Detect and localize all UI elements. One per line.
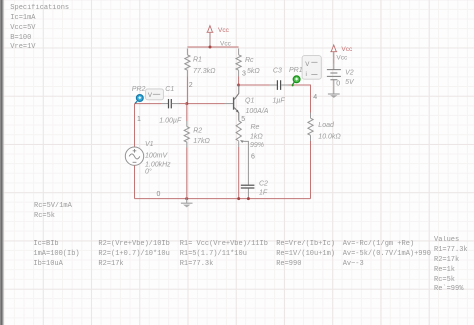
Vcc symbol 2 stem [333, 52, 335, 64]
svg-text:V2: V2 [345, 69, 354, 76]
ground symbol V2 [328, 93, 340, 95]
wire Rc top lead [238, 49, 240, 55]
potentiometer Re [236, 121, 241, 141]
wire R2 bottom to rail [186, 142, 188, 148]
wiper lead to C2 [243, 141, 248, 184]
svg-text:R2: R2 [193, 128, 202, 135]
svg-text:5V: 5V [345, 79, 355, 86]
source V1 circle [125, 147, 143, 165]
capacitor C1 left lead [161, 103, 168, 105]
svg-text:4: 4 [313, 94, 317, 101]
resistor Load [308, 118, 313, 135]
svg-text:17kΩ: 17kΩ [193, 138, 210, 145]
capacitor C2 bottom plate [241, 187, 255, 189]
resistor R1 [185, 55, 190, 70]
source V1 minus [133, 161, 137, 163]
capacitor C3 plates [277, 80, 280, 90]
svg-text:100mV: 100mV [145, 152, 169, 159]
wire V1 bottom to rail [134, 166, 136, 199]
svg-text:Load: Load [318, 122, 335, 129]
wire Vcc symbol stem [209, 33, 211, 47]
junction collector node [237, 84, 240, 87]
transistor Q1 collector lead [234, 85, 239, 99]
specifications text block [10, 4, 69, 53]
probe PR1 pointer tail [292, 82, 294, 85]
probe PR2 dot [136, 95, 143, 102]
formula column Re [276, 240, 335, 269]
wire Re bottom to rail [238, 141, 240, 147]
probe PR2 glyph [138, 96, 141, 99]
svg-text:1F: 1F [259, 190, 268, 197]
capacitor C2 top plate [241, 184, 255, 186]
source V1 sine [129, 154, 140, 159]
junction base node [185, 102, 188, 105]
svg-text:100A/A: 100A/A [246, 108, 269, 115]
transistor Q1 bar [233, 97, 235, 109]
svg-text:Re: Re [251, 124, 260, 131]
svg-text:5kΩ: 5kΩ [247, 68, 260, 75]
svg-text:0: 0 [157, 191, 161, 198]
svg-text:1: 1 [137, 116, 141, 123]
svg-text:5: 5 [241, 116, 245, 123]
wire base from junction to Q1 [187, 103, 225, 105]
junction at Vcc stem [209, 46, 212, 49]
battery V2 top lead [333, 64, 335, 70]
capacitor C1 right lead [172, 103, 179, 105]
svg-text:Vcc: Vcc [218, 27, 230, 34]
probe PR1 callout box [302, 56, 321, 80]
capacitor C3 left lead [270, 84, 277, 86]
svg-text:C1: C1 [165, 86, 174, 93]
svg-text:Q1: Q1 [245, 98, 254, 105]
potentiometer Re wiper arrow [240, 140, 244, 143]
probe PR2 callout box [146, 89, 164, 100]
svg-text:99%: 99% [250, 142, 264, 149]
svg-text:Vcc: Vcc [336, 54, 348, 61]
svg-text:0: 0 [336, 80, 340, 87]
transistor Q1 emitter arrowhead [236, 110, 239, 113]
formula column R1 [180, 240, 268, 269]
probe PR2 pointer tail [135, 101, 137, 103]
wire Load bottom to rail [310, 135, 312, 141]
capacitor C3 right lead [281, 84, 288, 86]
svg-text:0°: 0° [145, 167, 152, 175]
svg-text:6: 6 [251, 154, 255, 161]
svg-text:C2: C2 [259, 180, 268, 187]
formula column Ic [33, 240, 79, 269]
values list [434, 236, 468, 295]
wire R1 bottom to base junction [186, 70, 188, 76]
battery V2 bottom lead [333, 80, 335, 94]
resistor R2 [184, 127, 189, 142]
source V1 plus [133, 149, 137, 153]
wire C1 to base junction [179, 103, 187, 105]
wire top rail Vcc [187, 46, 238, 48]
probe PR1 glyph [295, 77, 298, 80]
junction emitter rail [237, 197, 240, 200]
svg-text:77.3kΩ: 77.3kΩ [193, 68, 216, 75]
svg-text:1kΩ: 1kΩ [250, 134, 263, 141]
svg-text:1.00kHz: 1.00kHz [145, 161, 171, 168]
svg-text:1µF: 1µF [273, 98, 286, 105]
transistor Q1 emitter lead [234, 108, 239, 121]
svg-text:i: i [306, 71, 307, 78]
ground symbol main [186, 199, 188, 203]
probe PR1 dot [293, 76, 300, 83]
svg-text:2: 2 [189, 82, 193, 89]
junction C2 rail [247, 197, 250, 200]
left toolbar edge [0, 0, 5, 325]
svg-text:PR2: PR2 [132, 86, 146, 93]
wire Rc bottom lead [238, 70, 240, 76]
svg-text:1.00µF: 1.00µF [159, 117, 182, 124]
svg-text:PR1: PR1 [289, 67, 303, 74]
Vcc symbol 2 arrow [330, 45, 337, 52]
svg-text:C3: C3 [273, 67, 282, 74]
wire C3 to load corner [289, 85, 311, 113]
svg-text:3: 3 [242, 71, 246, 78]
Rc calculation note [34, 202, 72, 221]
svg-text:Vcc: Vcc [341, 46, 353, 53]
capacitor C1 plates [169, 99, 172, 108]
wire collector junction to C3 [239, 84, 270, 86]
wire R1 top lead [186, 49, 188, 55]
svg-text:R1: R1 [193, 57, 202, 64]
formula column Av [343, 240, 431, 269]
svg-text:V1: V1 [145, 141, 154, 148]
svg-text:Vcc: Vcc [220, 41, 232, 48]
battery V2 plates [327, 70, 341, 80]
svg-text:10.0kΩ: 10.0kΩ [318, 134, 341, 141]
wire R2 top lead [186, 104, 188, 121]
svg-text:Rc: Rc [245, 57, 254, 64]
wire left rail top [134, 104, 136, 147]
Vcc symbol 1 arrow [207, 26, 214, 33]
wire bottom rail [135, 198, 311, 200]
probe PR2 wire corner / input wire [135, 103, 162, 105]
transistor Q1 base lead [225, 103, 234, 105]
junction R2 ground [185, 197, 188, 200]
resistor Rc [236, 55, 241, 70]
capacitor C2 bottom lead [247, 189, 249, 199]
formula column R2 [98, 240, 169, 269]
